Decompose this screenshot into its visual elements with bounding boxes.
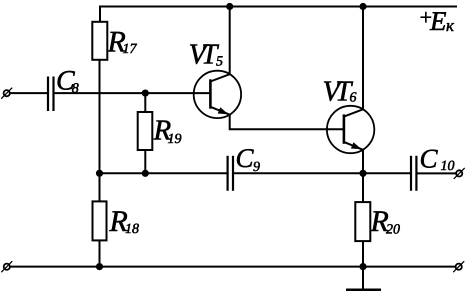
transistor VT5 [189, 39, 242, 119]
wire: VT5 emitter to VT6 base [230, 115, 344, 130]
svg-text:8: 8 [72, 82, 79, 97]
junction: VT6 emitter / R20 / C10 node [359, 170, 366, 177]
input terminal (bottom left) [1, 261, 12, 272]
junction: C8/R19/VT5 base node [142, 90, 149, 97]
svg-text:C: C [420, 144, 439, 174]
svg-text:E: E [429, 6, 447, 36]
svg-text:17: 17 [123, 42, 138, 57]
wire: VT5 collector to top rail [229, 7, 231, 75]
wire: R17 bottom through input line to divider node [99, 60, 101, 174]
junction: R18 bottom on bottom rail [96, 263, 103, 270]
capacitor C8 [48, 66, 79, 112]
output terminal (bottom right) [453, 261, 464, 272]
transistor VT6 [323, 76, 375, 154]
wire: +Ek top supply rail [100, 7, 457, 22]
junction: ground / R20 on bottom rail [359, 263, 366, 270]
wire: input terminal to C8 [10, 92, 47, 94]
resistor R18 [93, 173, 140, 266]
junction: VT5 collector on top rail [226, 3, 233, 10]
output terminal (top right) [454, 168, 465, 179]
node +Ek supply label [418, 5, 455, 36]
resistor R19 [138, 93, 182, 173]
wire: bottom common rail [10, 266, 455, 268]
svg-text:VT: VT [189, 39, 220, 71]
junction: R19 bottom on feedback line [142, 170, 149, 177]
junction: VT6 collector on top rail [359, 3, 366, 10]
svg-text:6: 6 [350, 90, 357, 105]
wire: VT6 collector to top rail [362, 7, 364, 110]
ground [346, 267, 381, 290]
svg-text:18: 18 [125, 222, 139, 237]
wire: C8 to VT5 base [55, 92, 211, 94]
capacitor C9 [228, 143, 260, 191]
svg-text:20: 20 [386, 223, 400, 238]
wire: C9 to VT6 emitter node [234, 172, 363, 174]
wire: VT6 emitter down to output node [362, 150, 364, 174]
wire: C10 to output terminal [418, 172, 456, 174]
input terminal (top left) [1, 88, 12, 99]
svg-text:19: 19 [168, 132, 182, 147]
capacitor C10 [411, 144, 455, 191]
junction: divider node on feedback line [96, 170, 103, 177]
wire: emitter node to C10 [363, 172, 410, 174]
resistor R17 [92, 7, 137, 60]
svg-text:5: 5 [216, 54, 223, 69]
svg-text:10: 10 [441, 159, 455, 174]
svg-text:к: к [446, 16, 455, 35]
wire: divider node to C9 [100, 172, 227, 174]
resistor R20 [355, 173, 400, 266]
svg-text:C: C [236, 143, 255, 173]
